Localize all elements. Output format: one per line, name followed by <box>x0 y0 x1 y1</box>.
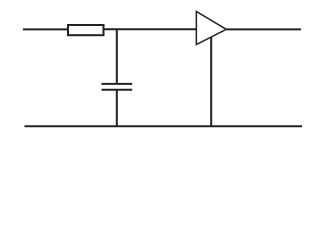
ground rail bottom wire <box>25 125 303 127</box>
resistor R1 <box>68 25 104 35</box>
op-amp U1 buffer triangle <box>196 12 226 45</box>
node junction <box>116 29 118 83</box>
wire resistor to buffer input <box>105 28 197 30</box>
wire output <box>226 28 301 30</box>
wire buffer bottom to ground rail <box>210 37 212 126</box>
wire capacitor to ground rail <box>116 91 118 127</box>
capacitor C1 <box>102 84 133 90</box>
wire input left <box>23 28 68 30</box>
